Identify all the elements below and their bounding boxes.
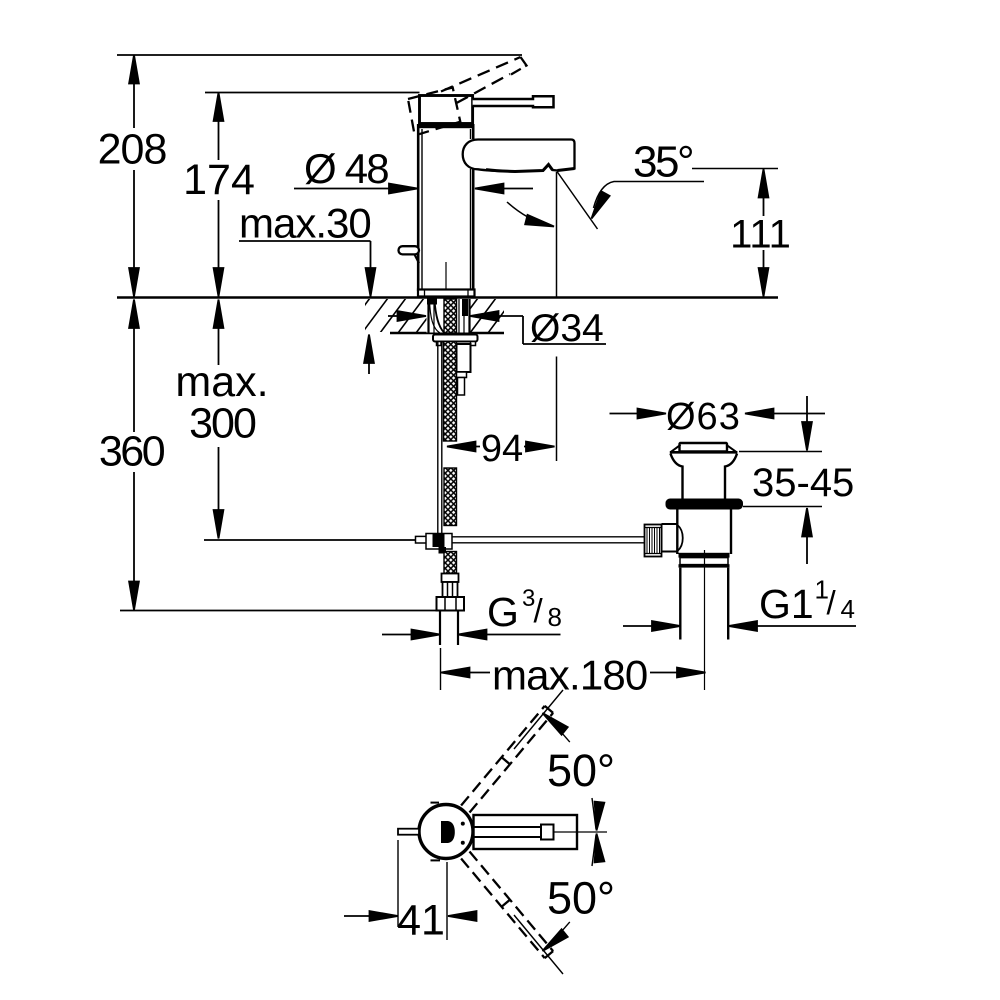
svg-text:35-45: 35-45 [752,461,854,505]
lever cross-section D shape [441,821,455,843]
svg-text:/: / [534,592,544,629]
dimension diameter 63 [610,409,826,419]
leader 35 degrees [587,182,704,221]
svg-text:208: 208 [98,126,167,174]
cartridge cap [420,96,473,124]
flange lip [670,451,738,454]
50 deg lower arc arrows [539,833,604,955]
dimension 111 [692,169,778,297]
dimension 174 line [214,93,224,297]
deck hatching right [452,298,514,333]
dashed handle raised position: lever lines [441,57,521,92]
side port [662,523,678,525]
lever top view [472,826,541,828]
svg-text:max.30: max.30 [239,200,371,247]
50 deg upper leg [514,690,563,749]
body circle top view [419,805,473,859]
hose ribbed section [443,582,458,597]
svg-text:Ø 48: Ø 48 [304,145,388,192]
svg-text:Ø63: Ø63 [666,396,741,438]
spout centerline [554,831,608,833]
funnel body [671,454,738,499]
dashed lever 50 up [461,706,553,813]
50 deg upper arc arrows [539,709,604,831]
locknut top band [679,553,730,558]
svg-text:Ø34: Ø34 [530,307,604,350]
spout [463,140,575,172]
dimension max.30 leader [239,241,375,374]
top reference line (handle-up height) [117,54,522,56]
dimension 208 line [129,55,139,297]
dimension G3/8 arrows [382,630,561,640]
G3/8 nut [437,597,465,611]
locknut bottom band [679,564,730,567]
dimension 35-45 [739,396,822,564]
dashed handle raised position: cap [408,88,460,136]
svg-text:94: 94 [481,428,523,470]
dimension diameter 34 [388,311,606,344]
svg-text:G1: G1 [759,581,814,627]
knurled adjuster knob [645,525,662,557]
svg-text:35°: 35° [633,138,692,187]
35 degree slant line [557,172,598,230]
cap black band [418,123,473,128]
dimension 360 [129,300,139,611]
braided hose below linkage [444,552,457,574]
svg-text:174: 174 [183,156,255,204]
check valve housing [457,344,471,372]
faucet base plate [418,290,475,297]
horizontal linkage rod [452,536,645,538]
label G3/8 [487,585,562,635]
mounting washer under deck [433,335,478,342]
drain body [677,510,731,555]
dimension max.300 [214,300,224,539]
svg-text:G: G [487,589,519,635]
braided supply hose middle [444,468,457,526]
dimension 41 [344,840,477,940]
index dots [461,822,465,826]
plug cap [680,443,728,452]
tailpipe [679,568,681,640]
deck top line [117,296,778,298]
rubber gasket [666,499,744,510]
faucet body right wall [472,124,475,139]
rod clamp joint [426,534,452,554]
rod stub left of circle [398,829,419,835]
faucet body left wall [417,124,420,291]
pop-up waste drain assembly [645,443,744,690]
reference line max.300 bottom [204,539,416,541]
drain centerline [704,550,706,690]
svg-text:max.180: max.180 [492,652,648,699]
spout top view [474,815,578,849]
pop-up rod knob at back [399,246,420,254]
linkage rod left stub [416,536,428,543]
pop-up vertical rod [437,342,439,534]
dimension 94 [447,442,555,452]
svg-text:50°: 50° [547,873,615,924]
locknut body [680,558,728,565]
dimension diameter 48 [294,184,533,194]
G3/8 threaded tube [439,611,441,646]
deck bottom line [390,332,504,334]
dashed lever 50 down [461,852,553,959]
braided supply hose upper [444,342,457,442]
svg-text:111: 111 [730,213,791,257]
deck hatching left [344,298,442,333]
label G1 1/4 [759,575,855,628]
stream swing arc arrow [507,202,555,231]
svg-text:8: 8 [548,602,562,632]
50 deg lower leg [514,915,563,974]
shank through deck [427,299,471,334]
dashed handle tip [511,57,527,75]
svg-text:41: 41 [397,897,445,945]
svg-text:300: 300 [189,400,256,448]
dimension max.180 [441,648,706,690]
svg-text:50°: 50° [547,745,615,796]
spout underside thick edge [486,165,575,172]
faucet internal pull rod line [445,262,447,297]
reference line 360 bottom [120,610,437,612]
hose ferrule [442,574,459,583]
dimension G1 1/4 arrows [623,621,856,631]
reference line 174 level [205,92,420,94]
lever handle (down position) [473,96,554,107]
water stream centerline [556,172,558,297]
svg-text:/: / [827,584,837,621]
flat ticks on circle [431,802,440,804]
svg-text:360: 360 [99,428,165,476]
svg-text:4: 4 [841,594,855,624]
